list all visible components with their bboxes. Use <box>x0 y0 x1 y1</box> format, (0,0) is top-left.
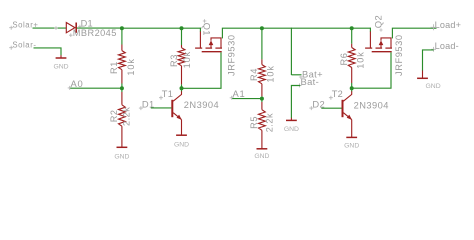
svg-text:R2: R2 <box>109 109 119 122</box>
svg-text:Solar-: Solar- <box>12 40 36 49</box>
junction node A0 <box>120 86 124 90</box>
wire D1 to T1 base <box>151 107 172 109</box>
svg-text:2.2k: 2.2k <box>265 113 275 132</box>
transistor T1 2N3904 npn <box>172 91 182 135</box>
wire rail drop to Q2 source <box>369 28 371 32</box>
svg-text:GND: GND <box>254 153 269 160</box>
svg-text:10k: 10k <box>355 51 365 69</box>
svg-text:2N3904: 2N3904 <box>354 101 389 111</box>
ground for T1 emitter <box>176 134 187 136</box>
wire Bat- to ground <box>291 86 300 119</box>
svg-text:Load-: Load- <box>435 41 459 51</box>
svg-text:JRF9530: JRF9530 <box>227 34 237 76</box>
svg-text:2.2k: 2.2k <box>122 107 132 126</box>
wire Load- to ground <box>423 50 434 71</box>
svg-text:R4: R4 <box>249 68 259 81</box>
junction node R3 top <box>180 26 184 30</box>
wire D2 to T2 base <box>321 107 341 109</box>
svg-text:10k: 10k <box>126 58 136 76</box>
svg-text:R1: R1 <box>109 61 119 74</box>
ground for R2 <box>117 146 128 148</box>
svg-text:GND: GND <box>284 126 299 133</box>
wire A0 to node <box>70 87 122 89</box>
wire Q1 gate to node R3 bottom <box>182 52 222 88</box>
svg-text:MBR2045: MBR2045 <box>73 28 117 38</box>
svg-text:Bat-: Bat- <box>301 76 320 87</box>
resistor R3 10k <box>181 28 183 45</box>
wire Solar- to ground <box>34 48 62 56</box>
svg-text:10k: 10k <box>182 51 192 69</box>
wire Q2 drain riser to rail and Load+ <box>392 28 436 38</box>
wire Q1 drain riser to rail <box>222 28 262 38</box>
svg-text:GND: GND <box>344 143 359 150</box>
wire diode D1 cathode to node R1 top <box>77 27 122 29</box>
wire A1 to node <box>232 98 262 100</box>
svg-text:T2: T2 <box>332 89 343 99</box>
resistor R2 2.2k <box>121 88 123 92</box>
svg-text:T1: T1 <box>162 89 173 99</box>
resistor R4 10k <box>261 28 263 59</box>
svg-text:Load+: Load+ <box>435 20 462 30</box>
svg-text:Q2: Q2 <box>373 15 384 28</box>
ground for R5 <box>257 148 268 150</box>
svg-text:GND: GND <box>174 141 189 148</box>
junction node R1 top <box>120 26 124 30</box>
wire rail R4 to Bat+ tap <box>262 27 292 29</box>
junction node R6 bottom / T2 collector <box>350 86 354 90</box>
ground for Solar- <box>60 55 62 58</box>
svg-text:JRF9530: JRF9530 <box>394 34 404 76</box>
ground for T2 emitter <box>346 136 357 138</box>
transistor T2 2N3904 npn <box>343 91 353 137</box>
wire rail drop to Q1 source <box>199 28 201 32</box>
resistor R5 2.2k <box>261 99 263 102</box>
wire Solar+ to diode D1 anode <box>33 27 67 29</box>
svg-text:R6: R6 <box>339 53 349 66</box>
resistor R1 10k <box>121 28 123 44</box>
svg-text:GND: GND <box>53 63 68 70</box>
svg-text:2N3904: 2N3904 <box>184 100 219 110</box>
transistor Q2 JRF9530 p-mosfet <box>365 32 392 52</box>
svg-text:R3: R3 <box>169 54 179 67</box>
junction node A1 <box>260 97 264 101</box>
svg-text:Q1: Q1 <box>202 23 213 36</box>
diode D1 MBR2045 <box>66 23 76 33</box>
svg-text:10k: 10k <box>265 65 275 83</box>
svg-text:A0: A0 <box>71 78 84 89</box>
wire T1 collector stub <box>181 88 183 91</box>
wire rail R3 to Q1 source <box>182 27 201 29</box>
svg-text:GND: GND <box>114 153 129 160</box>
junction node R6 top <box>350 26 354 30</box>
wire T2 collector stub <box>351 88 353 91</box>
resistor R6 10k <box>351 28 353 44</box>
wire rail R1 to R3 <box>122 27 182 29</box>
junction node R4 top <box>260 26 264 30</box>
svg-text:GND: GND <box>426 83 441 90</box>
ground for Bat- <box>290 118 292 121</box>
transistor Q1 JRF9530 p-mosfet <box>195 32 222 52</box>
junction node R3 bottom / T1 collector <box>180 86 184 90</box>
wire rail R6 to Q2 source <box>352 27 371 29</box>
svg-text:A1: A1 <box>233 88 246 99</box>
wire Bat+ tap down <box>290 28 292 75</box>
svg-text:R5: R5 <box>249 116 259 129</box>
wire rail Bat+ tap to R6 top <box>291 27 351 29</box>
ground for Load- <box>422 71 424 79</box>
wire Q2 gate to node R6 bottom <box>352 52 391 88</box>
